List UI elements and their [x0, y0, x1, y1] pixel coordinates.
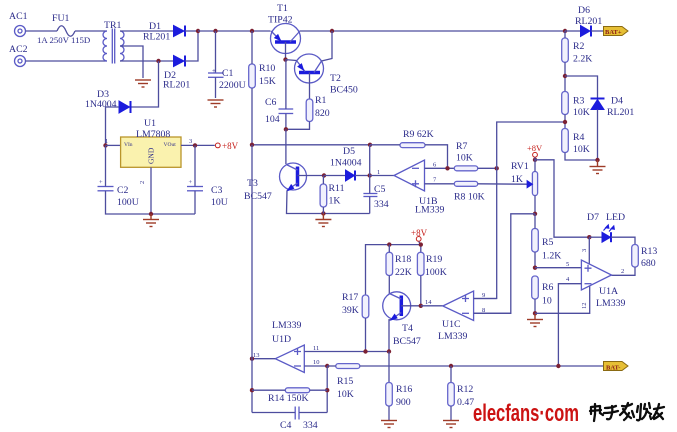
ground at C1: [208, 100, 224, 107]
wire RV1 top: [534, 157, 536, 171]
wire R9 right down to inverting line: [425, 145, 448, 169]
resistor R3 10K: [562, 92, 590, 119]
transformer TR1: [103, 20, 124, 64]
node R18 top: [387, 242, 391, 246]
svg-text:10K: 10K: [456, 153, 473, 164]
svg-text:10K: 10K: [337, 389, 354, 400]
wire U1C output: [421, 305, 443, 307]
svg-text:R18: R18: [395, 254, 411, 265]
wire AC2 to transformer: [26, 60, 108, 62]
wire R5 bottom: [534, 252, 536, 268]
wire T3 base: [298, 175, 325, 177]
svg-text:2200U: 2200U: [219, 80, 246, 91]
wire node to D7: [589, 236, 602, 238]
op-amp U1A LM339: [566, 249, 625, 309]
wire node to D5: [324, 175, 346, 177]
watermark elecfans.com: [473, 400, 579, 427]
net tag BAT+: [604, 27, 629, 36]
wire U1 Vin: [106, 144, 121, 146]
wire R18 stub: [388, 245, 390, 253]
wire D1 cathode to rail: [185, 30, 198, 32]
wire node to T3 collector: [285, 129, 287, 164]
capacitor C6 104: [265, 97, 293, 125]
wire D3 anode to U1 input: [106, 107, 120, 145]
wire R7 right: [478, 167, 497, 169]
wire U1A pin3 up: [588, 237, 590, 264]
node C1 tap: [213, 29, 217, 33]
node RV1 top: [533, 158, 537, 162]
svg-text:10U: 10U: [211, 197, 228, 208]
svg-text:GND: GND: [147, 147, 156, 164]
wire C5 top: [369, 176, 371, 194]
wire T2 base to R1: [309, 73, 311, 100]
svg-text:LM339: LM339: [272, 320, 301, 331]
wire wiper node to U1C pin8: [474, 214, 535, 313]
svg-text:LM339: LM339: [596, 298, 625, 309]
node R19 top: [419, 242, 423, 246]
wire sense up to R3/R4 divider: [497, 122, 565, 168]
svg-text:R11: R11: [329, 183, 345, 194]
svg-text:4: 4: [566, 276, 570, 283]
node R3 / R4 / sense: [563, 120, 567, 124]
wire left vertical (R10 line down): [251, 145, 253, 413]
capacitor C5 334: [363, 184, 388, 210]
svg-text:LM339: LM339: [415, 205, 444, 216]
wire R6 node to U1A pin12: [535, 286, 590, 314]
wire rail to D6: [565, 30, 581, 32]
diode D1 RL201: [143, 21, 185, 43]
node R2 / R3 / D4: [563, 74, 567, 78]
wire C2 top: [105, 145, 107, 186]
wire node to D4 top: [565, 76, 598, 98]
diode D6 RL201: [575, 5, 602, 37]
svg-text:BC547: BC547: [244, 191, 272, 202]
svg-text:T2: T2: [330, 73, 341, 84]
svg-text:100U: 100U: [117, 197, 139, 208]
svg-text:334: 334: [303, 420, 318, 431]
potentiometer RV1 1K: [511, 161, 538, 196]
wire C6 top to T1 base node: [285, 60, 287, 109]
ground at R16: [381, 421, 397, 428]
svg-text:334: 334: [374, 199, 389, 210]
svg-text:+: +: [99, 179, 103, 186]
wire R5 top: [534, 214, 536, 229]
ground at R6: [527, 313, 543, 326]
svg-text:D7: D7: [587, 212, 599, 223]
node R9 / R7 line: [445, 166, 449, 170]
regulator U1 LM7808: [105, 118, 192, 184]
svg-text:10K: 10K: [573, 107, 590, 118]
wire C5 bottom: [369, 197, 371, 214]
ground at U1: [143, 214, 159, 227]
wire T2 collector to rail: [322, 31, 333, 61]
svg-text:R10: R10: [259, 63, 275, 74]
transistor T4 BC547: [383, 292, 421, 347]
power port +8V (R18/R19 top): [411, 228, 428, 241]
svg-text:1N4004: 1N4004: [330, 158, 362, 169]
fuse FU1: [37, 13, 90, 45]
wire AC1 to fuse: [26, 30, 58, 32]
ground at transformer tap: [135, 80, 151, 87]
node R11 bottom / ground: [321, 211, 325, 215]
resistor R18 22K: [386, 252, 412, 278]
node pin10 / R15 / R14: [325, 364, 329, 368]
wire R14 right stub: [310, 389, 328, 391]
transistor T3 BC547: [244, 163, 307, 202]
svg-text:7: 7: [433, 177, 437, 184]
svg-text:12: 12: [581, 303, 588, 310]
node R5 / R6: [533, 266, 537, 270]
wire U1B output: [370, 175, 394, 177]
resistor R14 150K: [268, 388, 310, 404]
wire +8V node to D7 feed: [535, 160, 589, 237]
svg-text:C4: C4: [280, 420, 292, 431]
svg-text:5: 5: [566, 261, 569, 268]
svg-text:TR1: TR1: [104, 20, 122, 31]
terminal AC1: [9, 11, 28, 37]
svg-text:RL201: RL201: [607, 107, 634, 118]
node R7 / divider sense: [495, 166, 499, 170]
svg-text:D6: D6: [578, 5, 590, 16]
wire R13 bottom to U1A output: [612, 267, 636, 275]
wire R17 bottom: [365, 318, 367, 352]
wire R10 bottom: [251, 88, 253, 145]
diode D4 RL201: [591, 96, 635, 119]
node T1 base / T2 emitter: [283, 57, 287, 61]
wire pull-up line R10 to R9: [252, 144, 370, 146]
wire D5 cathode to node: [355, 175, 370, 177]
wire C3 top: [194, 145, 196, 186]
wire sense down to U1C pin9: [474, 168, 497, 298]
node secondary-bottom / D3 branch: [156, 59, 160, 63]
svg-text:R1: R1: [315, 95, 327, 106]
svg-text:10K: 10K: [573, 144, 590, 155]
svg-text:1A 250V 115D: 1A 250V 115D: [37, 35, 90, 45]
svg-text:C6: C6: [265, 97, 277, 108]
wire R6 bottom: [534, 299, 536, 313]
resistor R6 10: [532, 276, 554, 307]
wire C4 left: [252, 412, 295, 414]
transistor T2 BC450: [295, 54, 358, 96]
svg-text:R7: R7: [456, 141, 468, 152]
wire rail T1 collector to right: [300, 30, 566, 32]
wire secondary center tap: [120, 46, 143, 78]
svg-text:39K: 39K: [342, 305, 359, 316]
svg-text:R12: R12: [457, 384, 473, 395]
capacitor C2 100U: [98, 179, 139, 208]
svg-text:R8 10K: R8 10K: [454, 192, 485, 203]
node C3 tap: [193, 143, 197, 147]
wire R19 bottom to T4 base node: [420, 276, 422, 306]
svg-text:3: 3: [189, 138, 192, 145]
resistor R4 10K: [562, 129, 590, 156]
node T4 base / R19 / U1C out: [419, 304, 423, 308]
wire fuse to transformer: [75, 30, 107, 32]
wire secondary bottom to D2: [120, 60, 174, 62]
node D5 / C5 / U1B output: [368, 173, 372, 177]
svg-text:LED: LED: [606, 212, 625, 223]
wire R11 bottom: [322, 207, 324, 214]
resistor R19 100K: [417, 252, 446, 278]
svg-text:FU1: FU1: [52, 13, 70, 24]
resistor R10 15K: [249, 63, 276, 88]
wire U1A minus input to sense vertical: [558, 284, 581, 366]
wire U1D output to left vertical: [252, 358, 275, 360]
wire T4 emitter down: [389, 320, 391, 352]
svg-text:LM339: LM339: [438, 331, 467, 342]
wire D7 cathode to R13: [611, 237, 635, 244]
svg-text:RL201: RL201: [163, 80, 190, 91]
wire R16 top: [388, 352, 390, 383]
wire U1B non-inverting input: [425, 183, 455, 185]
wire rail to R10: [251, 31, 253, 64]
wire C1 top: [215, 31, 217, 73]
wire D4 bottom: [597, 110, 599, 161]
svg-text:1: 1: [377, 169, 380, 176]
node D7 line / U1A pin3: [587, 235, 591, 239]
resistor R12 0.47: [448, 383, 475, 409]
op-amp U1C LM339: [425, 291, 485, 342]
svg-text:AC1: AC1: [9, 11, 28, 22]
svg-text:VIn: VIn: [124, 142, 133, 148]
node R12 top: [449, 364, 453, 368]
svg-text:1K: 1K: [329, 196, 341, 207]
node T4 emitter / R16: [387, 349, 391, 353]
svg-text:1N4004: 1N4004: [85, 99, 117, 110]
diode D2 RL201: [163, 56, 190, 91]
resistor R2 2.2K: [562, 38, 593, 65]
node U1A minus sense: [556, 364, 560, 368]
svg-text:RL201: RL201: [575, 16, 602, 27]
svg-text:D5: D5: [343, 146, 355, 157]
node D4 / R4 ground: [595, 158, 599, 162]
resistor R15 10K: [336, 364, 360, 400]
svg-text:15K: 15K: [259, 76, 276, 87]
svg-text:2: 2: [139, 181, 146, 184]
wire D3 branch down: [132, 61, 159, 107]
svg-text:R14 150K: R14 150K: [268, 393, 309, 404]
wire R3 bottom: [564, 115, 566, 129]
svg-text:R17: R17: [342, 292, 358, 303]
svg-text:R19: R19: [426, 254, 442, 265]
svg-text:10: 10: [542, 296, 552, 307]
svg-text:C2: C2: [117, 185, 129, 196]
capacitor C1 2200U: [208, 67, 246, 91]
wire R12 top: [450, 366, 452, 383]
wire U1B inverting input: [425, 167, 455, 169]
svg-text:U1A: U1A: [599, 286, 618, 297]
svg-text:C5: C5: [374, 184, 386, 195]
wire R9 left: [370, 144, 400, 146]
svg-text:AC2: AC2: [9, 44, 28, 55]
svg-text:2: 2: [621, 268, 624, 275]
svg-text:LM7808: LM7808: [136, 129, 170, 140]
node U1D output: [250, 357, 254, 361]
wire T3 emitter down: [287, 190, 370, 213]
svg-text:+: +: [189, 179, 193, 186]
svg-text:BAT+: BAT+: [605, 29, 622, 36]
svg-text:14: 14: [425, 299, 432, 306]
resistor R9 62K: [400, 129, 434, 148]
svg-text:100K: 100K: [425, 267, 447, 278]
power port +8V (RV1 top): [527, 143, 543, 157]
power port +8V (regulator output): [215, 141, 238, 151]
svg-text:820: 820: [315, 108, 330, 119]
wire R15 left stub: [327, 365, 336, 367]
wire C4 right: [299, 412, 327, 414]
svg-text:900: 900: [396, 397, 411, 408]
svg-text:3: 3: [581, 249, 588, 252]
resistor R11 1K: [320, 183, 344, 207]
svg-text:U1D: U1D: [272, 334, 291, 345]
resistor R17 39K: [342, 292, 369, 318]
svg-text:RV1: RV1: [511, 161, 529, 172]
wire R4 bottom to ground node: [565, 153, 598, 161]
resistor R13 680: [632, 245, 658, 270]
svg-text:104: 104: [265, 114, 280, 125]
svg-text:D4: D4: [611, 96, 623, 107]
diode D3 1N4004: [85, 89, 131, 113]
svg-text:C1: C1: [222, 68, 234, 79]
svg-text:D1: D1: [149, 21, 161, 32]
terminal AC2: [9, 44, 28, 67]
resistor R1 820: [306, 95, 330, 122]
node D3 / C2 / U1 Vin: [103, 143, 107, 147]
node pull-up left: [250, 143, 254, 147]
svg-text:+8V: +8V: [527, 143, 543, 153]
wire R1 bottom to C6 node: [286, 122, 310, 130]
wire U1C pin8 stub: [474, 312, 511, 314]
node T3 base / R11 / D5: [322, 173, 326, 177]
wire node to U1A plus input: [535, 267, 581, 269]
svg-text:elecfans·com: elecfans·com: [473, 400, 579, 427]
svg-text:BAT-: BAT-: [606, 364, 620, 371]
wire T1 base down: [285, 42, 287, 60]
wire R17/R18/R19 top line: [366, 242, 421, 296]
svg-text:R2: R2: [573, 41, 585, 52]
wire R12 bottom: [450, 406, 452, 420]
ground at D4/R4: [590, 160, 606, 174]
node R10 top: [250, 29, 254, 33]
wire R18 bottom to T4 collector: [388, 276, 390, 294]
svg-text:BC450: BC450: [330, 85, 358, 96]
wire secondary top to D1: [120, 30, 174, 32]
svg-text:+8V: +8V: [222, 141, 239, 151]
node ground junction: [149, 212, 153, 216]
svg-text:R15: R15: [337, 376, 353, 387]
wire R2 bottom: [564, 62, 566, 91]
node R17 bottom: [363, 349, 367, 353]
node pull-up / U1B output: [368, 143, 372, 147]
wire U1C pin9 stub: [474, 298, 497, 300]
node RV1 bottom / wiper line: [533, 212, 537, 216]
svg-text:T1: T1: [277, 3, 288, 14]
ground at T3 emitter: [315, 214, 331, 227]
wire RV1 bottom: [534, 196, 536, 214]
wire D6 to BAT+ tag: [591, 30, 604, 32]
node T2 collector tap: [330, 29, 334, 33]
node R14 left: [250, 388, 254, 392]
svg-text:TIP42: TIP42: [268, 15, 293, 26]
wire C3 bottom: [194, 191, 196, 214]
watermark chinese characters: [590, 403, 664, 421]
svg-text:T4: T4: [402, 323, 413, 334]
wire C2 bottom: [106, 191, 196, 214]
wire R8 right to RV1 wiper: [478, 183, 528, 185]
svg-text:U1C: U1C: [442, 319, 461, 330]
svg-text:1K: 1K: [511, 174, 523, 185]
svg-text:R6: R6: [542, 282, 554, 293]
wire R16 bottom: [388, 406, 390, 420]
wire T4 base: [401, 305, 421, 307]
wire R15 right / sense line to BAT-: [360, 365, 604, 367]
svg-text:R3: R3: [573, 96, 585, 107]
wire node up to pull-up line: [369, 145, 371, 176]
wire U1 Vout to +8V port: [181, 144, 215, 146]
node C6 / R1: [284, 127, 288, 131]
svg-text:1.2K: 1.2K: [542, 251, 561, 262]
node D1/D2 join: [196, 29, 200, 33]
wire U1D pin10 line: [304, 365, 327, 367]
wire R11 top: [322, 176, 324, 185]
net tag BAT-: [604, 362, 629, 372]
svg-text:6: 6: [433, 162, 437, 169]
wire rail D1 to T1: [198, 30, 271, 32]
svg-text:2.2K: 2.2K: [573, 54, 592, 65]
svg-text:BC547: BC547: [393, 336, 421, 347]
op-amp U1B LM339: [377, 160, 444, 216]
svg-text:VOut: VOut: [164, 142, 177, 148]
diode D7 LED: [587, 212, 625, 242]
svg-text:680: 680: [641, 258, 656, 269]
svg-text:R4: R4: [573, 132, 585, 143]
wire U1D pin11 line to T4 emitter: [304, 351, 389, 353]
wire C1 bottom: [215, 77, 217, 98]
resistor R7 10K: [454, 141, 477, 171]
resistor R16 900: [386, 383, 413, 409]
node rail / R2 / D6: [563, 29, 567, 33]
svg-text:+8V: +8V: [411, 228, 428, 238]
node R6 / ground / U1A pin12: [533, 311, 537, 315]
ground at R12: [443, 421, 459, 428]
node R14 right: [325, 388, 329, 392]
op-amp U1D LM339: [253, 320, 320, 373]
wire T2 emitter to node: [286, 59, 297, 62]
wire U1 GND pin: [150, 167, 152, 214]
wire R2 top: [564, 31, 566, 38]
svg-text:1: 1: [105, 138, 108, 145]
capacitor C4 334: [280, 407, 318, 432]
diode D5 1N4004: [330, 146, 362, 181]
svg-text:R16: R16: [396, 384, 412, 395]
wire D2 cathode up to rail: [185, 31, 198, 61]
svg-text:+: +: [212, 67, 216, 75]
wire R14 left stub: [252, 389, 285, 391]
svg-text:C3: C3: [211, 185, 223, 196]
wire R14 vertical right: [326, 366, 328, 413]
svg-text:R9 62K: R9 62K: [403, 129, 434, 140]
svg-text:RL201: RL201: [143, 32, 170, 43]
svg-text:U1: U1: [144, 118, 156, 129]
capacitor C3 10U: [187, 179, 228, 208]
svg-text:22K: 22K: [395, 267, 412, 278]
resistor R5 1.2K: [532, 229, 562, 262]
resistor R8 10K: [454, 181, 485, 202]
wire C6 bottom: [285, 114, 287, 130]
svg-text:R13: R13: [641, 246, 657, 257]
svg-text:10: 10: [313, 359, 320, 366]
svg-text:R5: R5: [542, 237, 554, 248]
